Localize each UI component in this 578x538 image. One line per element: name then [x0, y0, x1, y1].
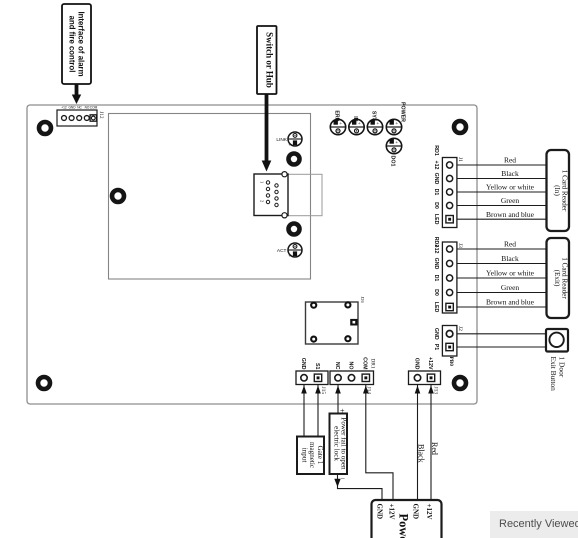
svg-text:J1: J1 — [457, 157, 463, 162]
svg-text:+: + — [376, 121, 379, 127]
svg-text:Exit Button: Exit Button — [549, 357, 558, 392]
svg-text:Green: Green — [501, 283, 520, 292]
svg-text:Power supply: Power supply — [397, 514, 411, 538]
svg-text:Black: Black — [501, 254, 519, 263]
svg-text:GND: GND — [68, 106, 76, 110]
svg-text:+: + — [288, 255, 291, 260]
svg-text:1: 1 — [260, 181, 265, 183]
svg-text:+: + — [339, 121, 342, 127]
svg-text:GND: GND — [412, 504, 420, 520]
svg-text:Green: Green — [501, 196, 520, 205]
svg-text:NO: NO — [347, 362, 353, 370]
svg-text:+: + — [288, 144, 291, 149]
svg-text:+: + — [358, 121, 361, 127]
svg-text:LINK: LINK — [276, 137, 287, 143]
svg-text:SYS: SYS — [371, 111, 377, 122]
svg-text:GND: GND — [413, 358, 419, 370]
svg-text:Red: Red — [430, 442, 439, 455]
svg-text:S1: S1 — [314, 363, 320, 370]
svg-text:GND: GND — [433, 258, 439, 270]
svg-text:Red: Red — [504, 240, 516, 249]
svg-text:+12: +12 — [433, 161, 439, 170]
svg-text:J15: J15 — [320, 387, 326, 395]
svg-text:+12V: +12V — [425, 504, 433, 520]
svg-text:PB0: PB0 — [448, 357, 454, 367]
svg-text:ERR: ERR — [334, 110, 340, 121]
svg-text:ACT: ACT — [277, 248, 287, 254]
svg-text:J12: J12 — [98, 112, 103, 119]
svg-text:COM: COM — [362, 357, 368, 370]
svg-text:GND: GND — [433, 328, 439, 340]
svg-text:and fire control: and fire control — [68, 16, 77, 73]
svg-text:Red: Red — [504, 156, 516, 165]
svg-text:+12V: +12V — [388, 504, 396, 520]
svg-text:Interface of alarm: Interface of alarm — [77, 12, 86, 77]
svg-text:COM: COM — [90, 106, 98, 110]
svg-text:GND: GND — [300, 358, 306, 370]
svg-text:GND: GND — [376, 504, 384, 520]
svg-text:LED: LED — [433, 214, 439, 225]
svg-text:J2: J2 — [457, 326, 463, 331]
svg-text:DO1: DO1 — [390, 156, 396, 167]
svg-text:J3: J3 — [457, 243, 463, 248]
svg-text:IN: IN — [352, 116, 358, 121]
svg-text:LED: LED — [433, 302, 439, 313]
svg-text:Brown and blue: Brown and blue — [486, 210, 535, 219]
svg-text:Yellow or white: Yellow or white — [486, 269, 535, 278]
svg-text:P1: P1 — [433, 344, 439, 351]
svg-text:NC: NC — [77, 106, 82, 110]
svg-text:D0: D0 — [433, 289, 439, 296]
svg-text:+: + — [340, 407, 345, 416]
svg-text:(In): (In) — [553, 185, 561, 196]
svg-text:+12V: +12V — [427, 357, 433, 370]
svg-text:(Exit): (Exit) — [553, 270, 561, 287]
svg-text:electric lock: electric lock — [333, 426, 341, 461]
svg-text:2: 2 — [260, 200, 265, 202]
svg-text:Switch or Hub: Switch or Hub — [265, 32, 275, 88]
svg-text:+12: +12 — [61, 106, 67, 110]
svg-text:+: + — [395, 140, 398, 146]
svg-text:Yellow or white: Yellow or white — [486, 183, 535, 192]
svg-text:−: − — [341, 475, 346, 484]
svg-text:Black: Black — [417, 444, 426, 463]
svg-text:+12: +12 — [433, 245, 439, 254]
svg-text:Brown and blue: Brown and blue — [486, 298, 535, 307]
svg-text:D1: D1 — [433, 275, 439, 282]
svg-text:D1: D1 — [433, 189, 439, 196]
svg-text:+: + — [395, 121, 398, 127]
svg-text:Black: Black — [501, 169, 519, 178]
svg-text:POWER: POWER — [399, 102, 405, 122]
svg-text:input: input — [301, 448, 309, 463]
svg-text:J26: J26 — [360, 297, 365, 304]
svg-text:RD1: RD1 — [433, 145, 439, 156]
svg-text:D0: D0 — [433, 202, 439, 209]
svg-text:DR1: DR1 — [370, 358, 376, 368]
svg-text:GND: GND — [433, 173, 439, 185]
svg-text:NC: NC — [334, 362, 340, 370]
svg-text:Gate 1: Gate 1 — [316, 446, 324, 465]
